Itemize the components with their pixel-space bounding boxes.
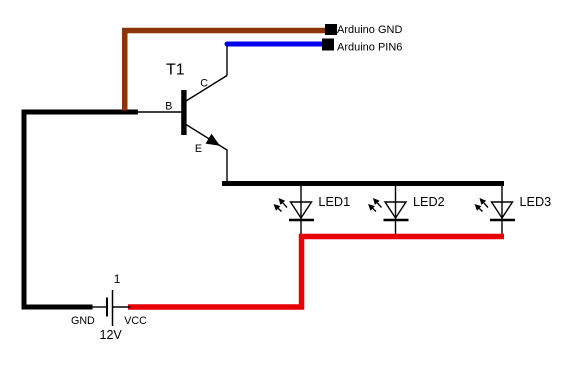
svg-text:C: C xyxy=(200,78,208,90)
svg-text:VCC: VCC xyxy=(124,315,147,327)
svg-text:1: 1 xyxy=(114,272,121,286)
svg-text:Arduino GND: Arduino GND xyxy=(337,24,402,36)
wire: black GND loop (top-left to battery) xyxy=(24,112,138,307)
wire: brown to Arduino GND xyxy=(125,31,328,111)
wire: red VCC run xyxy=(128,237,504,308)
LED2 xyxy=(368,186,409,234)
LED1 xyxy=(274,186,315,234)
svg-text:T1: T1 xyxy=(166,61,185,78)
svg-text:12V: 12V xyxy=(100,328,123,342)
wire: emitter down to rail xyxy=(226,150,228,185)
transistor T1 xyxy=(181,76,227,151)
LED3 xyxy=(475,186,516,234)
pad Arduino GND xyxy=(325,24,337,35)
battery 12V xyxy=(92,290,130,326)
wire: blue to Arduino PIN6 xyxy=(227,42,328,47)
wire: base lead to transistor xyxy=(135,111,182,113)
wire: black LED anode rail xyxy=(222,181,504,186)
svg-text:E: E xyxy=(195,143,202,155)
svg-text:LED2: LED2 xyxy=(413,195,445,209)
svg-text:LED1: LED1 xyxy=(318,195,350,209)
wire: collector to PIN6 xyxy=(226,44,228,76)
pad Arduino PIN6 xyxy=(322,39,334,51)
svg-text:GND: GND xyxy=(71,315,95,327)
svg-text:LED3: LED3 xyxy=(520,195,552,209)
svg-text:Arduino PIN6: Arduino PIN6 xyxy=(337,41,402,53)
svg-text:B: B xyxy=(165,101,172,113)
